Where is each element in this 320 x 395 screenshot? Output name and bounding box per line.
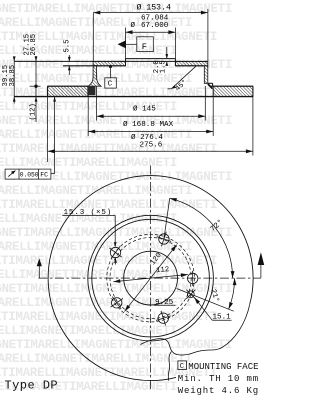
45 deg leader — [171, 66, 196, 89]
front view texts — [64, 209, 232, 322]
section: mounting face top line — [14, 60, 208, 62]
svg-text:67.000: 67.000 — [141, 22, 169, 30]
ext line 153.4 left — [92, 13, 94, 62]
svg-text:(12): (12) — [30, 103, 38, 120]
svg-text:MAGNETIMARELLIMAGNETIMARELLIMA: MAGNETIMARELLIMAGNETIMARELLIMAGNETI — [0, 254, 217, 268]
dim 153.4 line — [93, 12, 208, 14]
runout tolerance frame — [5, 169, 51, 179]
ext line 67 left — [125, 28, 127, 59]
svg-text:26.85: 26.85 — [30, 34, 38, 56]
section: band top line right — [211, 85, 253, 87]
svg-text:275.6: 275.6 — [140, 141, 163, 149]
svg-text:MAGNETIMARELLIMAGNETIMARELLIMA: MAGNETIMARELLIMAGNETIMARELLIMAGNETI — [0, 352, 192, 366]
dim 39.15/38.85 line — [13, 57, 15, 104]
svg-text:0.050: 0.050 — [20, 172, 39, 179]
bolt hole H2 — [188, 273, 198, 283]
section: plate bottom line right — [175, 65, 204, 67]
svg-text:1.5: 1.5 — [160, 60, 168, 73]
dim 168.8 line — [88, 131, 213, 133]
band inner circle 2 — [92, 219, 210, 337]
ext line 153.4 right — [207, 9, 209, 61]
bottom right info block — [178, 361, 259, 395]
svg-text:38.85: 38.85 — [9, 65, 17, 87]
leader 9.25 — [154, 304, 176, 306]
svg-text:MOUNTING FACE: MOUNTING FACE — [188, 362, 258, 372]
svg-text:112: 112 — [156, 266, 170, 275]
bolt circle 112 dashed — [110, 238, 191, 319]
bolt circle 120 dashed — [107, 234, 195, 322]
svg-text:MAGNETIMARELLIMAGNETIMARELLIMA: MAGNETIMARELLIMAGNETIMARELLIMAGNETI — [0, 338, 232, 352]
pin hole — [187, 291, 194, 298]
section: braking band right hatched — [213, 86, 253, 96]
dim 2.0/1.5 line — [166, 47, 168, 59]
ext line 168.8 right — [212, 89, 214, 137]
svg-text:Min. TH 10 mm: Min. TH 10 mm — [178, 374, 259, 384]
section dimension texts — [2, 3, 189, 179]
band inner circle 1 — [88, 215, 214, 341]
section: right wall ledge line — [208, 82, 213, 84]
disc outer circle with cutout gap — [48, 176, 253, 381]
dim 145 line — [97, 115, 206, 117]
section: band outer edge left — [47, 86, 49, 96]
svg-text:C: C — [180, 363, 185, 371]
svg-text:Weight 4.6 Kg: Weight 4.6 Kg — [178, 386, 259, 395]
svg-text:15.1: 15.1 — [213, 314, 232, 322]
svg-text:9.25: 9.25 — [155, 299, 174, 307]
svg-text:MAGNETIMARELLIMAGNETIMARELLIMA: MAGNETIMARELLIMAGNETIMARELLIMAGNETI — [0, 128, 192, 142]
datum C leader — [110, 67, 112, 78]
hub bore circle — [124, 251, 178, 305]
dim 67.084 line — [126, 31, 176, 33]
section: hat skirt wall left hatched — [88, 66, 101, 86]
runout leader line — [54, 97, 56, 174]
72deg leg through H1 — [164, 198, 170, 239]
section: outboard face line — [14, 96, 253, 98]
rotation arrow right — [258, 252, 265, 265]
section: braking band left hatched — [48, 86, 88, 96]
section: hat skirt wall right hatched — [204, 66, 208, 84]
svg-text:Ø 153.4: Ø 153.4 — [137, 3, 171, 13]
ext line 145 right — [204, 86, 206, 121]
section: plate bottom line left — [63, 65, 126, 67]
boxed C mounting face — [178, 361, 187, 370]
watermark MAGNETI MARELLI tiled — [0, 2, 232, 394]
dim 276.4 line — [48, 150, 253, 152]
dim 120 line — [125, 245, 177, 312]
dim 112 line — [113, 275, 188, 282]
section: right wall ledge edge — [212, 83, 214, 86]
ext line 145 left — [96, 86, 98, 121]
svg-text:FC: FC — [40, 172, 48, 179]
horizontal centerline — [38, 277, 261, 279]
ext line 168.8 left — [87, 87, 89, 136]
bolt hole H1 — [159, 234, 169, 244]
svg-text:Ø: Ø — [131, 21, 136, 30]
break squiggle vertical — [168, 352, 171, 381]
cutout break boundary — [140, 304, 249, 355]
svg-text:15.3 (×5): 15.3 (×5) — [64, 209, 113, 217]
section: bore wall left — [125, 59, 127, 66]
ext line 276.4 right — [252, 97, 254, 156]
section: band outer edge right — [252, 86, 254, 96]
ext line 276.4 left — [47, 97, 49, 162]
FRONT VIEW — [48, 176, 253, 381]
rotation arrow — [37, 258, 42, 266]
section: hat top plate right hatched — [175, 61, 207, 65]
leader 15.3 — [62, 214, 115, 216]
72deg arc — [170, 198, 233, 278]
section: chamfer edge right thick — [208, 84, 213, 89]
section: hat top plate left hatched — [93, 61, 125, 65]
bolt hole H3 — [158, 313, 168, 323]
section: dark fillet junction left — [89, 87, 96, 96]
leader 15.1 — [212, 319, 231, 321]
bolt hole H4 — [112, 298, 122, 308]
bolt hole H5 — [110, 247, 120, 257]
datum F box — [137, 37, 154, 52]
svg-text:MAGNETIMARELLIMAGNETIMARELLIMA: MAGNETIMARELLIMAGNETIMARELLIMAGNETI — [0, 282, 232, 296]
svg-text:MAGNETIMARELLIMAGNETIMARELLIMA: MAGNETIMARELLIMAGNETIMARELLIMAGNETI — [0, 2, 232, 16]
svg-text:MAGNETIMARELLIMAGNETIMARELLIMA: MAGNETIMARELLIMAGNETIMARELLIMAGNETI — [0, 226, 232, 240]
dim 27.15/26.85 line — [35, 56, 37, 122]
section: pilot boss top line — [126, 58, 176, 60]
svg-text:MAGNETIMARELLIMAGNETIMARELLIMA: MAGNETIMARELLIMAGNETIMARELLIMAGNETI — [0, 142, 217, 156]
pin radial leg — [177, 289, 234, 312]
svg-text:MAGNETIMARELLIMAGNETIMARELLIMA: MAGNETIMARELLIMAGNETIMARELLIMAGNETI — [0, 310, 217, 324]
svg-text:F: F — [142, 42, 147, 52]
21deg arc — [229, 278, 235, 309]
dim 5.5 line — [68, 55, 70, 61]
svg-text:Type DP: Type DP — [5, 379, 59, 393]
vertical centerline — [150, 166, 152, 392]
section: bore wall right — [174, 59, 176, 66]
svg-text:C: C — [108, 81, 113, 89]
dim reference dot — [34, 85, 37, 88]
datum C box — [105, 78, 117, 88]
datum F leader — [126, 43, 137, 45]
svg-text:Ø 168.8 MAX: Ø 168.8 MAX — [123, 120, 174, 129]
tolerance frame attach — [51, 173, 55, 175]
svg-text:Ø 145: Ø 145 — [133, 105, 156, 114]
ext line 67 right — [174, 28, 176, 59]
svg-text:5.5: 5.5 — [63, 40, 71, 53]
section: band top line left — [48, 85, 89, 87]
